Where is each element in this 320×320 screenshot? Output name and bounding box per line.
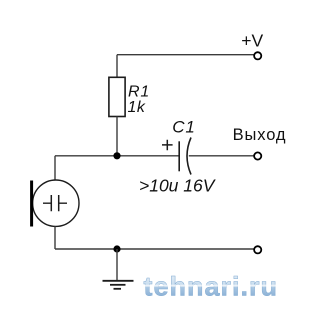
wire: top rail from R1 top to +V terminal (117, 54, 254, 56)
wire: resistor bottom to junction (116, 117, 118, 156)
terminal bottom common (254, 246, 261, 253)
svg-text:Выход: Выход (233, 126, 287, 144)
svg-text:1k: 1k (128, 99, 146, 116)
wire: microphone bottom down (54, 226, 56, 249)
wire: middle rail from mic corner to capacitor (55, 155, 179, 157)
svg-text:C1: C1 (172, 117, 195, 136)
ground (103, 280, 134, 282)
capacitor plus sign (162, 140, 173, 151)
microphone internal capacitor leads (43, 202, 67, 204)
microphone internal capacitor plates (51, 195, 58, 211)
capacitor C1 positive plate (178, 141, 180, 171)
wire: vertical into resistor R1 top (116, 55, 118, 78)
watermark gloss line (143, 285, 279, 287)
wire: capacitor to output terminal (189, 155, 254, 157)
junction node B (ground tap) (113, 245, 120, 252)
wire: down to microphone top (54, 156, 56, 181)
microphone membrane bar (30, 181, 33, 227)
terminal +V (254, 52, 261, 59)
svg-text:+V: +V (241, 31, 263, 51)
resistor R1 (109, 77, 125, 116)
svg-text:>10u 16V: >10u 16V (139, 176, 217, 196)
wire: bottom rail (55, 248, 254, 250)
terminal output (254, 152, 261, 159)
junction node A (113, 152, 120, 159)
microphone BM1 body (33, 180, 79, 226)
capacitor C1 curved plate (187, 138, 191, 175)
ground stem (116, 249, 118, 281)
